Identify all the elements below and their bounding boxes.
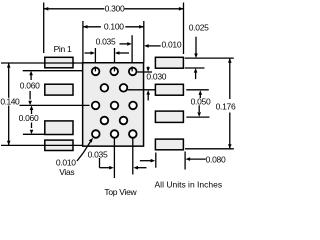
wire: L-bottom package bottom / 0.140 bottom extension (1, 144, 83, 146)
arrowhead: 0.060 lower bottom (points down at L5) (30, 130, 34, 135)
wire: stems entering top row vias (95, 67, 132, 72)
arrowhead: 0.080 left (points right at line F) (151, 159, 156, 163)
arrowhead: 0.100 right (139, 25, 144, 29)
left side horizontal lines (1, 63, 90, 145)
arrowhead: 0.010 top right (points left at package right ext) (144, 44, 149, 48)
svg-text:0.010: 0.010 (56, 158, 76, 168)
wire: 0.025 bottom arrow stem (195, 72, 197, 79)
wire: 0.080 left arrow line (140, 160, 153, 162)
wire: 0.100 left extension (package left edge extended up) (82, 21, 84, 63)
svg-text:0.060: 0.060 (20, 80, 40, 90)
wire: col3 stem below package (132, 138, 134, 175)
wire: 0.050 upper blob stem (199, 95, 201, 99)
svg-text:All Units in Inches: All Units in Inches (155, 180, 223, 190)
wire: R1 via row1 right extension (137, 71, 152, 73)
wire: col2 stem below package (113, 138, 115, 178)
wire: L5 pad3 bottom extension (23, 133, 45, 135)
svg-text:0.176: 0.176 (216, 101, 236, 111)
via row3 col1 (92, 102, 100, 110)
wire: L2 via row1 left extension (23, 70, 83, 72)
wire: line E bottom pad extension (185, 148, 234, 150)
arrowhead: 0.300 right (179, 7, 184, 11)
pad RP2 right (155, 84, 183, 95)
wire: 0.100 dim line right part (125, 26, 144, 28)
wire: L-bottom repeated over pad4 (45, 144, 75, 146)
arrowhead: 0.176 bottom (points down at line E) (228, 144, 232, 149)
wire: L1 pad1 centerline / 0.140 top extension (1, 62, 83, 64)
svg-text:0.025: 0.025 (189, 22, 209, 32)
svg-text:0.100: 0.100 (104, 22, 124, 32)
arrowhead: 0.030 top (points down at R1) (146, 67, 150, 72)
pad RP3 right (155, 111, 183, 122)
wire: 0.010 vias leader (77, 140, 92, 161)
svg-text:Vias: Vias (59, 167, 74, 177)
wire: 0.060 lower upper stem (31, 110, 33, 114)
svg-text:0.035: 0.035 (96, 37, 116, 47)
via row2 col1 (101, 84, 109, 92)
arrowhead: top 0.035 upper (points right at col3 stem) (127, 42, 132, 46)
arrowhead: 0.080 right (points left at line G) (186, 157, 191, 161)
wire: line F bottom pad left extension (155, 153, 157, 168)
via row1 col1 (92, 68, 100, 76)
wire: C via row2 extension right piece (186, 89, 209, 91)
wire: via column1 stem (94, 48, 96, 71)
wire: bottom 0.035 left arrow line (100, 167, 112, 169)
arrowhead: 0.050 top (points up at line C) (199, 90, 203, 95)
arrowhead: 0.010 vias leader (points up-right at via) (89, 138, 93, 143)
wire: C via row2 extension left piece (128, 89, 156, 91)
wire: 0.100 dim line left part (83, 26, 101, 28)
svg-text:0.035: 0.035 (88, 149, 108, 159)
wire: L4 via row3 left extension (20, 104, 90, 106)
via row4 col2 (120, 117, 128, 125)
arrowhead: 0.140 bottom (points down at L-bottom) (7, 141, 11, 146)
svg-text:0.050: 0.050 (191, 97, 211, 107)
wire: 0.176 dim line lower segment (229, 113, 231, 149)
wire: 0.060 upper lower stem (29, 91, 31, 100)
arrowhead: bottom 0.035 left (points right at col2 stem) (109, 166, 114, 170)
wire: line G bottom pad right extension (184, 152, 186, 170)
arrowhead: top 0.035 lower-right (points left at col2 stem) (115, 51, 120, 55)
arrowhead: 0.025 leader down arrow (tip at line A) (194, 54, 198, 59)
wire: via column3 stem (131, 35, 133, 71)
wire: 0.030 upper arrow stem (147, 67, 149, 69)
wire: 0.300 dim line right part (124, 8, 183, 10)
arrowhead: 0.050 bottom (points down at line D) (197, 112, 201, 117)
wire: L1 repeated over pad1 (45, 62, 75, 64)
wire: 0.080 right arrow line (189, 158, 206, 160)
via row3 col3 (129, 102, 137, 110)
wire: 0.140 dim line upper segment (8, 63, 10, 98)
svg-text:0.300: 0.300 (105, 4, 125, 14)
arrowhead: 0.060 lower top (points up at L4) (30, 105, 34, 110)
svg-text:0.080: 0.080 (206, 155, 226, 165)
right-of-package mid lines (128, 58, 234, 149)
wire: bottom 0.035 right arrow line (137, 167, 147, 169)
via row1 col3 (129, 68, 137, 76)
wire: bottom 0.035 leader vertical (99, 158, 101, 168)
wire: top 0.035 upper arrow line (120, 43, 130, 45)
arrowhead: 0.300 left (44, 7, 49, 11)
arrowhead: 0.025 bottom (points up at line B) (194, 68, 198, 73)
package body (83, 63, 144, 146)
wire: 0.025 leader stem (195, 37, 197, 54)
wire: 0.140 dim line lower segment (8, 106, 10, 146)
wire: via column2 stem (114, 48, 116, 71)
svg-text:0.140: 0.140 (0, 97, 20, 107)
via row4 col1 (101, 117, 109, 125)
pad P3 left (45, 121, 73, 135)
wire: line D pad RP3 mid extension (186, 116, 209, 118)
wire: 0.050 lower arrow stem (198, 105, 200, 112)
svg-text:Top View: Top View (104, 187, 137, 197)
arrowhead: 0.100 left (83, 25, 88, 29)
pad P2 left (45, 84, 73, 95)
via row3 col2 (111, 102, 119, 110)
svg-text:0.030: 0.030 (146, 72, 166, 82)
arrowhead: 0.140 top (points up at L1) (7, 63, 11, 68)
wire: 0.010 top right arrow line (147, 45, 161, 47)
arrowhead: 0.060 upper top (points up at L2) (29, 71, 33, 76)
arrowhead: bottom 0.035 right (points left at col3 stem) (133, 166, 138, 170)
wire: 0.300 left extension line (43, 3, 45, 54)
pad RP1 right (155, 57, 183, 68)
wire: line A pad RP1 top extension (185, 57, 234, 59)
arrowhead: 0.176 top (points up at line A) (228, 58, 232, 63)
wire: line B pad RP1 bottom extension (185, 67, 205, 69)
pad P4 bottom-left (45, 140, 73, 150)
arrowhead: 0.030 bottom (points up at line C) (146, 90, 150, 95)
svg-text:Pin 1: Pin 1 (54, 44, 72, 54)
wire: 0.100 right extension (package right edge extended up) (143, 21, 145, 63)
arrowhead: top 0.035 lower-left (points right at col1 stem) (91, 51, 96, 55)
via row5 col1 (92, 130, 100, 138)
wire: 0.176 dim line upper segment (229, 58, 231, 99)
via row2 col2 (120, 84, 128, 92)
via row5 col2 (111, 130, 119, 138)
arrowhead: 0.060 upper bottom (points down at L4) (28, 101, 32, 106)
wire: 0.300 dim line left part (44, 8, 105, 10)
wire: top 0.035 lower right arrow line (118, 52, 129, 54)
wire: 0.060 lower bottom stem (31, 123, 33, 129)
pad bottom center-right (155, 139, 183, 150)
bottom area (77, 138, 206, 178)
pad P1 (Pin 1) left (45, 57, 73, 68)
wire: 0.060 upper stem below arrowhead (30, 75, 32, 80)
svg-text:0.060: 0.060 (19, 113, 39, 123)
wire: top 0.035 lower left arrow line (85, 52, 93, 54)
via row1 col2 (110, 68, 118, 76)
via row5 col3 (129, 130, 137, 138)
vias: white filled circles, black ring (92, 68, 137, 138)
svg-text:0.010: 0.010 (162, 40, 182, 50)
wire: 0.300 right extension line (183, 3, 185, 55)
wire: 0.030 lower arrow stem (147, 94, 149, 101)
